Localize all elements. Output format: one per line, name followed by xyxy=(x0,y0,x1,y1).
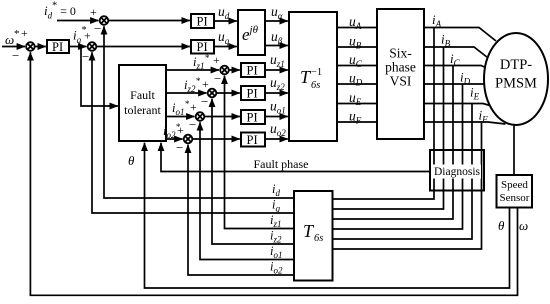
svg-text:PMSM: PMSM xyxy=(495,76,537,92)
svg-text:id: id xyxy=(272,182,280,198)
svg-text:−: − xyxy=(214,71,221,86)
svg-text:−1: −1 xyxy=(311,67,322,78)
svg-text:uz2: uz2 xyxy=(270,75,285,92)
svg-text:−: − xyxy=(12,48,19,63)
svg-text:ud: ud xyxy=(218,4,230,21)
wire id feedback xyxy=(104,26,294,198)
svg-text:io2: io2 xyxy=(270,260,283,276)
wire phase F to motor xyxy=(424,122,506,124)
svg-text:PI: PI xyxy=(52,40,63,54)
svg-text:uα: uα xyxy=(271,4,283,21)
svg-text:iA: iA xyxy=(432,12,442,29)
wire J4 to PI z2 xyxy=(216,92,240,94)
svg-text:+: + xyxy=(84,29,91,43)
wire u_o2 xyxy=(265,138,288,140)
wire uB xyxy=(337,46,377,48)
summing junction J6 (io2) xyxy=(184,135,193,144)
svg-text:6s: 6s xyxy=(314,233,323,244)
svg-text:DTP-: DTP- xyxy=(500,57,532,73)
diagnosis block xyxy=(430,150,484,191)
wire FT to J3 xyxy=(166,69,219,71)
wire io1 feedback xyxy=(200,122,294,259)
PI controller speed xyxy=(47,40,69,53)
transform block T6s xyxy=(294,191,333,281)
wire id*=0 input xyxy=(57,20,99,22)
svg-text:+: + xyxy=(213,53,220,67)
wire FT to J6 xyxy=(166,138,183,140)
wire J5 to PI o1 xyxy=(204,116,240,118)
svg-text:phase: phase xyxy=(385,60,416,75)
svg-text:uF: uF xyxy=(349,109,362,126)
wire uF xyxy=(337,121,377,123)
svg-text:−: − xyxy=(201,94,208,109)
summing junction J3 (iz1) xyxy=(220,66,229,75)
wire Jw to PI speed xyxy=(35,46,46,48)
wire u_o1 xyxy=(265,116,288,118)
svg-text:PI: PI xyxy=(247,87,258,101)
label diagnosis xyxy=(433,165,481,179)
wire u_beta xyxy=(265,45,288,47)
wire iz2 feedback xyxy=(212,99,294,244)
svg-text:iC: iC xyxy=(450,51,461,68)
svg-text:PI: PI xyxy=(247,133,258,147)
svg-text:uE: uE xyxy=(349,90,362,107)
summing junction J1 (id) xyxy=(100,16,109,25)
svg-text:id* = 0: id* = 0 xyxy=(44,1,76,21)
inverse transform block T6s^-1 xyxy=(289,12,337,141)
wire iB feedback drop xyxy=(333,47,444,209)
svg-text:uD: uD xyxy=(349,71,363,88)
wire iq feedback xyxy=(92,52,294,213)
svg-text:uq: uq xyxy=(218,29,230,46)
svg-text:−: − xyxy=(94,21,101,36)
svg-text:+: + xyxy=(21,26,28,40)
wire J2 to PI q xyxy=(96,46,190,48)
wire iE feedback drop xyxy=(333,104,473,240)
svg-text:PI: PI xyxy=(247,111,258,125)
wire theta feedback xyxy=(145,143,510,288)
svg-text:io1: io1 xyxy=(270,244,282,260)
svg-text:PI: PI xyxy=(197,40,208,54)
svg-text:Fault: Fault xyxy=(130,88,155,102)
six-phase VSI block xyxy=(377,9,424,139)
wire iD feedback drop xyxy=(333,84,463,229)
svg-text:PI: PI xyxy=(247,64,258,78)
wire omega* input xyxy=(2,46,25,48)
svg-text:iF: iF xyxy=(479,108,489,125)
svg-text:uβ: uβ xyxy=(271,29,283,46)
svg-text:*: * xyxy=(14,28,20,40)
wire iF feedback drop xyxy=(333,122,482,249)
svg-text:−: − xyxy=(176,140,183,155)
PI controller z1 xyxy=(241,63,265,77)
wire fault phase xyxy=(161,143,430,172)
svg-text:Speed: Speed xyxy=(501,179,528,191)
fault tolerant block xyxy=(119,65,166,141)
wire io2 feedback xyxy=(188,145,294,275)
svg-text:tolerant: tolerant xyxy=(124,103,161,117)
wire J6 to PI o2 xyxy=(192,138,240,140)
svg-text:θ: θ xyxy=(498,218,505,233)
wire iA feedback drop xyxy=(333,28,435,200)
svg-text:uo2: uo2 xyxy=(270,121,286,138)
svg-text:−: − xyxy=(82,49,89,64)
svg-text:ejθ: ejθ xyxy=(242,24,259,44)
summing junction Jw (speed) xyxy=(26,42,35,51)
wire iC feedback drop xyxy=(333,66,454,220)
svg-text:iz2: iz2 xyxy=(270,229,282,245)
svg-text:uC: uC xyxy=(349,52,363,69)
svg-text:+: + xyxy=(90,5,97,19)
svg-text:iz2*: iz2* xyxy=(184,76,201,94)
wire J3 to PI z1 xyxy=(229,69,240,71)
wire uq xyxy=(214,46,237,48)
svg-text:VSI: VSI xyxy=(390,74,412,89)
svg-text:iB: iB xyxy=(441,32,451,49)
svg-text:iz1*: iz1* xyxy=(193,53,210,71)
svg-text:+: + xyxy=(190,100,197,114)
wire tap iq* to fault tolerant input xyxy=(81,47,118,107)
summing junction J2 (iq) xyxy=(88,42,97,51)
speed sensor block xyxy=(497,175,533,208)
svg-text:uz1: uz1 xyxy=(270,52,285,69)
svg-text:PI: PI xyxy=(197,15,208,29)
wire omega feedback xyxy=(30,52,517,295)
wire u_z1 xyxy=(265,69,288,71)
svg-text:uB: uB xyxy=(349,34,362,51)
summing junction J5 (io1) xyxy=(196,112,205,121)
svg-text:uA: uA xyxy=(349,14,362,31)
wire phase E to motor xyxy=(424,104,490,106)
wire uE xyxy=(337,103,377,105)
wire phase C to motor xyxy=(424,66,486,68)
wire phase A to motor xyxy=(424,28,496,42)
svg-text:iq: iq xyxy=(272,198,280,214)
wire J1 to PI d xyxy=(108,20,190,22)
svg-text:uo1: uo1 xyxy=(270,99,286,116)
svg-text:+: + xyxy=(177,123,184,137)
wire iz1 feedback xyxy=(225,76,295,229)
svg-text:Six-: Six- xyxy=(389,46,412,61)
svg-text:ω: ω xyxy=(5,32,14,47)
svg-text:−: − xyxy=(189,117,196,132)
svg-text:θ: θ xyxy=(128,153,135,168)
wire phase B to motor xyxy=(424,47,488,58)
svg-text:ω: ω xyxy=(519,218,528,233)
PI controller q xyxy=(191,40,214,54)
svg-text:Fault phase: Fault phase xyxy=(254,157,309,171)
wire u_alpha xyxy=(265,20,288,22)
svg-text:6s: 6s xyxy=(311,80,320,91)
wire motor to speed sensor xyxy=(513,125,515,175)
wire u_z2 xyxy=(265,92,288,94)
svg-text:iz1: iz1 xyxy=(270,213,282,229)
svg-text:Sensor: Sensor xyxy=(500,192,530,204)
wire ud xyxy=(214,20,237,22)
PI controller o1 xyxy=(241,110,265,124)
wire uD xyxy=(337,83,377,85)
wire FT to J5 xyxy=(166,116,195,118)
PI controller z2 xyxy=(241,86,265,100)
wire PI speed to J2 xyxy=(69,46,87,48)
motor DTP-PMSM xyxy=(484,33,548,125)
svg-text:Diagnosis: Diagnosis xyxy=(434,166,481,178)
wire uA xyxy=(337,27,377,29)
svg-text:iE: iE xyxy=(470,85,480,102)
svg-text:io1*: io1* xyxy=(172,99,189,117)
summing junction J4 (iz2) xyxy=(208,89,217,98)
PI controller d xyxy=(191,14,214,28)
wire FT to J4 xyxy=(166,92,207,94)
rotation block e^jtheta xyxy=(238,10,265,55)
wire uC xyxy=(337,65,377,67)
wire phase D to motor xyxy=(424,83,485,85)
PI controller o2 xyxy=(241,133,265,147)
svg-text:+: + xyxy=(202,77,209,91)
